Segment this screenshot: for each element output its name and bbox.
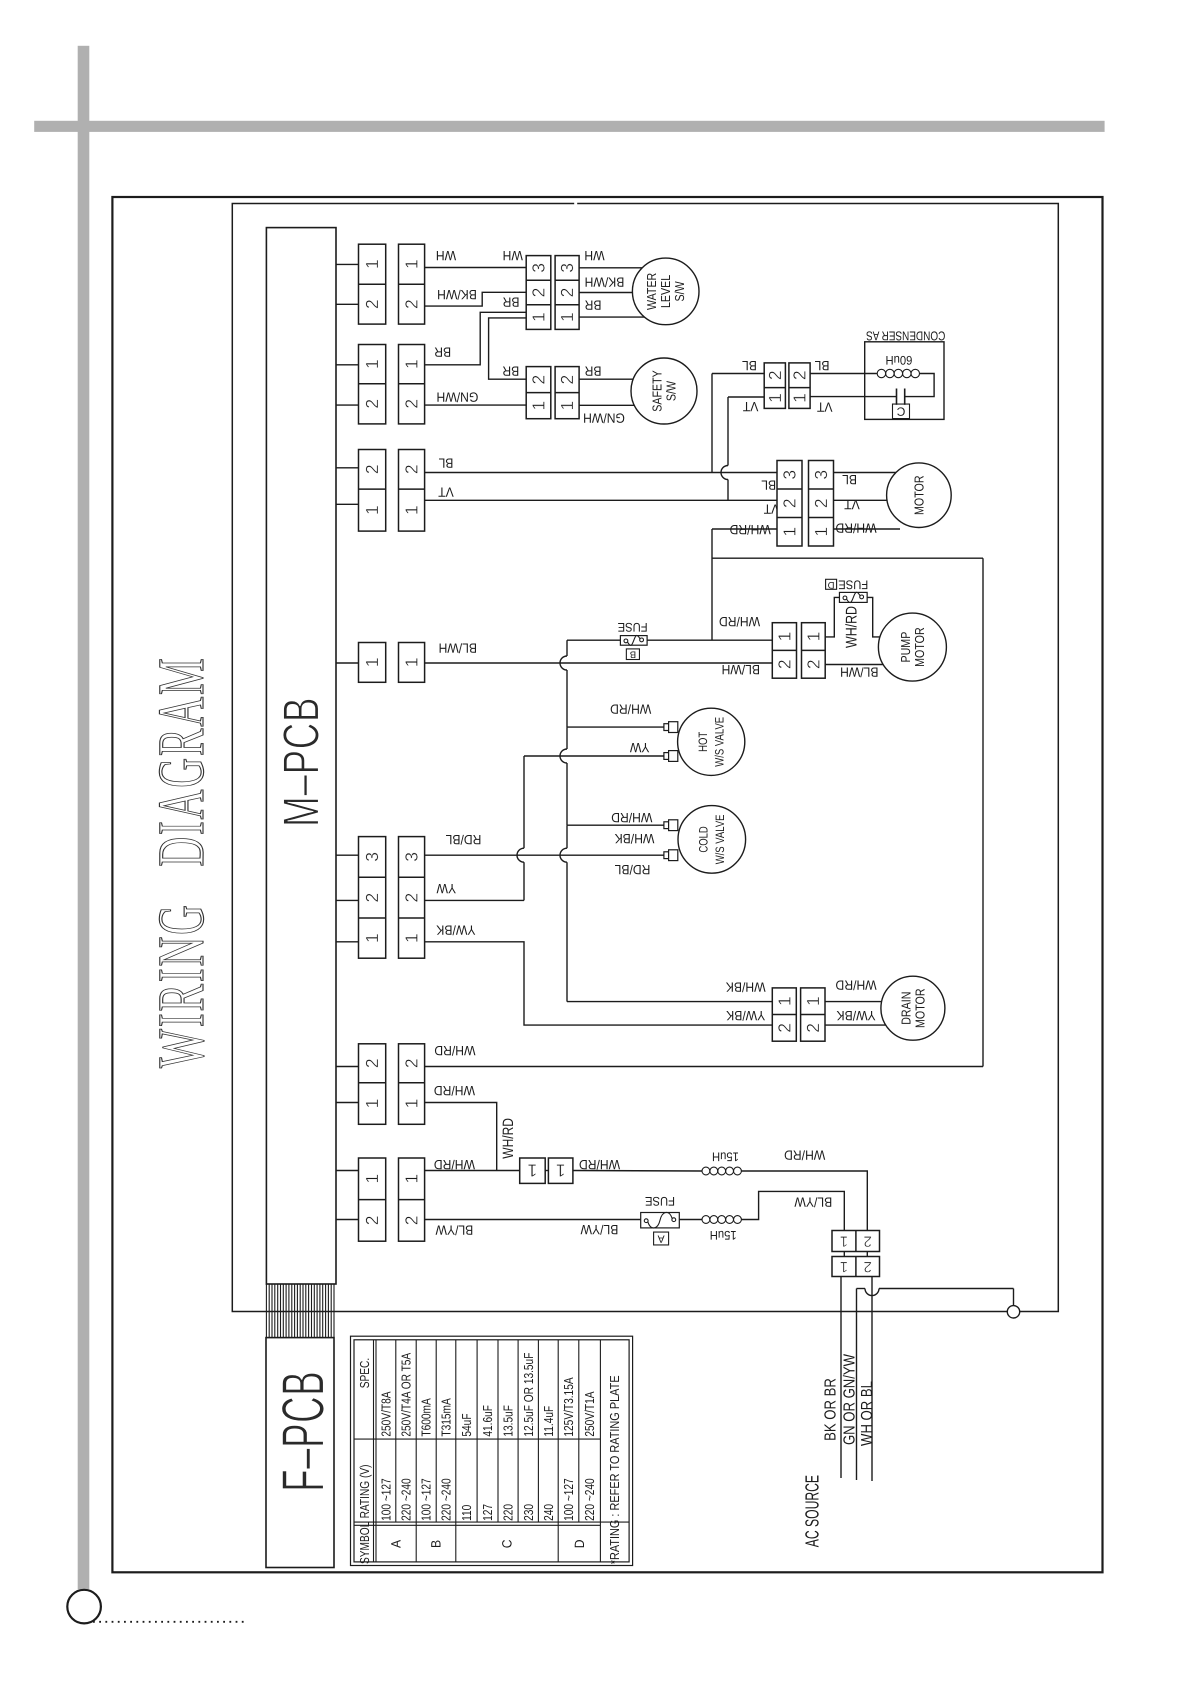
svg-text:DRAIN: DRAIN bbox=[898, 992, 913, 1025]
boxed label B bbox=[626, 649, 639, 660]
svg-text:YW/BK: YW/BK bbox=[436, 923, 475, 938]
svg-text:FUSE: FUSE bbox=[838, 577, 868, 591]
svg-text:BL/WH: BL/WH bbox=[840, 664, 878, 679]
condenser assembly box bbox=[865, 342, 944, 420]
wire bbox=[336, 263, 359, 265]
svg-text:YW: YW bbox=[436, 881, 456, 896]
svg-text:WH/BK: WH/BK bbox=[726, 979, 766, 994]
svg-text:1: 1 bbox=[402, 259, 422, 269]
svg-text:CONDENSER AS: CONDENSER AS bbox=[866, 329, 945, 344]
svg-text:3: 3 bbox=[811, 470, 831, 480]
svg-text:HOT: HOT bbox=[696, 731, 710, 751]
wire BL pairC-2 to motor connector pin3 bbox=[425, 472, 777, 474]
svg-text:WH/RD: WH/RD bbox=[844, 606, 861, 648]
svg-text:RATING (V): RATING (V) bbox=[357, 1465, 372, 1519]
svg-text:VT: VT bbox=[817, 399, 833, 414]
connector CN-MT col1 bbox=[777, 461, 802, 547]
svg-text:C: C bbox=[896, 404, 905, 418]
wire WH/RD feed vertical mid (hop over YW) bbox=[560, 727, 567, 825]
svg-text:100 ~127: 100 ~127 bbox=[378, 1478, 393, 1521]
svg-text:2: 2 bbox=[864, 1258, 872, 1275]
svg-text:COLD: COLD bbox=[697, 826, 711, 853]
svg-text:1: 1 bbox=[790, 393, 810, 403]
connector CN-PM col1 bbox=[772, 623, 796, 679]
wire bbox=[336, 1170, 359, 1172]
wire bbox=[336, 1219, 359, 1221]
boxed label A bbox=[654, 1232, 669, 1245]
wire pump pin1 to fuse D bbox=[825, 597, 839, 637]
wire BR branch CN-WL pin1 down to CN-SF pin2 bbox=[489, 318, 527, 379]
wire coil to capacitor bbox=[905, 374, 934, 397]
svg-text:D: D bbox=[572, 1539, 587, 1548]
svg-text:2: 2 bbox=[803, 659, 823, 669]
wire bbox=[336, 941, 359, 943]
svg-text:2: 2 bbox=[362, 893, 382, 903]
boxed label D bbox=[826, 579, 837, 590]
wire WH pairA-1 to CN-WL bbox=[425, 267, 527, 269]
svg-text:15uH: 15uH bbox=[710, 1228, 737, 1242]
wire WH/RD vertical to fuse junction bbox=[711, 529, 713, 640]
svg-text:WH: WH bbox=[584, 248, 604, 263]
svg-text:220 ~240: 220 ~240 bbox=[439, 1478, 454, 1521]
svg-text:2: 2 bbox=[362, 399, 382, 409]
connector CN-B col2 bbox=[399, 345, 425, 424]
svg-text:110: 110 bbox=[459, 1505, 474, 1521]
wire bbox=[336, 503, 359, 505]
svg-text:54uF: 54uF bbox=[459, 1413, 474, 1436]
svg-text:BL: BL bbox=[814, 358, 829, 373]
svg-text:WH/RD: WH/RD bbox=[835, 520, 876, 535]
svg-text:WATER: WATER bbox=[644, 273, 659, 310]
svg-text:T315mA: T315mA bbox=[439, 1398, 454, 1437]
svg-text:2: 2 bbox=[402, 464, 422, 474]
inner border top small break bbox=[574, 202, 577, 205]
water level switch bbox=[632, 258, 699, 325]
svg-text:125V/T3.15A: 125V/T3.15A bbox=[561, 1377, 576, 1436]
svg-text:1: 1 bbox=[402, 505, 422, 515]
F-PCB board rectangle bbox=[266, 1338, 334, 1568]
boxed label C bbox=[893, 404, 910, 419]
connector CN-D col2 bbox=[399, 643, 425, 683]
connector CN-E col2 bbox=[399, 837, 425, 959]
wire VT pairC-1 to motor connector pin2 bbox=[425, 499, 777, 501]
wire BL/WH to pump motor bbox=[825, 664, 883, 666]
connector CN-C col2 bbox=[399, 450, 425, 532]
svg-text:1: 1 bbox=[780, 527, 800, 537]
wire fuse A to coil 2 bbox=[679, 1219, 702, 1221]
svg-text:F–PCB: F–PCB bbox=[270, 1371, 337, 1492]
wire GN/WH to safety switch bbox=[579, 404, 634, 406]
drain motor bbox=[881, 976, 945, 1040]
svg-text:250V/T4A OR T5A: 250V/T4A OR T5A bbox=[399, 1353, 414, 1437]
svg-text:2: 2 bbox=[803, 1023, 823, 1033]
connector CN-WL col2 bbox=[555, 256, 579, 330]
wire BL branch up to condenser connector pin2 bbox=[711, 374, 713, 473]
svg-text:WH/RD: WH/RD bbox=[719, 614, 760, 629]
svg-text:2: 2 bbox=[765, 370, 785, 380]
svg-text:2: 2 bbox=[362, 1058, 382, 1068]
svg-text:1: 1 bbox=[803, 996, 823, 1006]
connector CN-F col1 bbox=[359, 1044, 386, 1125]
svg-text:AC SOURCE: AC SOURCE bbox=[803, 1475, 824, 1547]
svg-text:1: 1 bbox=[402, 1099, 422, 1109]
wire bbox=[843, 1252, 845, 1257]
svg-text:2: 2 bbox=[774, 659, 794, 669]
svg-text:BL: BL bbox=[742, 358, 757, 373]
svg-text:1: 1 bbox=[402, 658, 422, 668]
wire WH/RD feed vertical upper (hop over BL/WH) bbox=[560, 640, 567, 727]
svg-text:WH/RD: WH/RD bbox=[434, 1043, 475, 1058]
wire BK OR BR to AC source bbox=[840, 1277, 842, 1479]
connector CN-H box2 bbox=[548, 1158, 573, 1183]
wire WH OR BL to AC source bbox=[871, 1277, 873, 1482]
svg-text:A: A bbox=[658, 1233, 665, 1245]
wire BK/WH pairA-2 jog bbox=[425, 292, 527, 306]
svg-text:1: 1 bbox=[362, 505, 382, 515]
svg-text:M–PCB: M–PCB bbox=[273, 697, 330, 827]
svg-text:W/S VALVE: W/S VALVE bbox=[712, 717, 726, 767]
svg-text:1: 1 bbox=[362, 658, 382, 668]
svg-text:YW: YW bbox=[630, 740, 650, 755]
svg-text:3: 3 bbox=[362, 852, 382, 862]
wire GN/WH pairB-2 to CN-SF pin1 bbox=[425, 404, 527, 406]
svg-text:2: 2 bbox=[557, 375, 577, 385]
svg-text:1: 1 bbox=[362, 1099, 382, 1109]
svg-text:YW/BK: YW/BK bbox=[837, 1008, 876, 1023]
svg-text:W/S VALVE: W/S VALVE bbox=[713, 814, 727, 864]
svg-text:PUMP: PUMP bbox=[898, 632, 913, 663]
svg-text:SAFETY: SAFETY bbox=[650, 370, 665, 412]
svg-text:BL/YW: BL/YW bbox=[580, 1222, 618, 1237]
svg-text:WIRING DIAGRAM: WIRING DIAGRAM bbox=[145, 656, 218, 1068]
filter coil 15uH line 2 bbox=[702, 1216, 741, 1224]
svg-text:1: 1 bbox=[362, 1174, 382, 1184]
wire earth branch with hop bbox=[857, 1289, 1014, 1306]
registration mark horizontal gray bar bbox=[34, 121, 1104, 132]
wire feed vertical lower (hop over RD/BL) bbox=[560, 825, 567, 1001]
svg-text:100 ~127: 100 ~127 bbox=[419, 1478, 434, 1521]
svg-text:VT: VT bbox=[743, 399, 759, 414]
connector CN-DM col2 bbox=[801, 988, 825, 1041]
wire bbox=[336, 899, 359, 901]
wire bbox=[866, 1252, 868, 1257]
svg-text:B: B bbox=[630, 649, 636, 660]
svg-text:3: 3 bbox=[780, 470, 800, 480]
connector CN-G col1 bbox=[359, 1158, 386, 1241]
svg-text:15uH: 15uH bbox=[712, 1150, 739, 1164]
svg-text:11.4uF: 11.4uF bbox=[541, 1406, 556, 1437]
wire YW/BK to drain motor bbox=[825, 1024, 886, 1026]
svg-text:1: 1 bbox=[402, 1174, 422, 1184]
cold water valve bbox=[678, 806, 746, 874]
svg-text:GN OR GN/YW: GN OR GN/YW bbox=[841, 1353, 858, 1445]
wire YW/BK from CN-E pin1 bbox=[425, 942, 773, 1025]
capacitor C plates bbox=[896, 389, 898, 405]
svg-text:1: 1 bbox=[529, 401, 549, 411]
svg-text:*RATING : REFER TO RATING PLAT: *RATING : REFER TO RATING PLATE bbox=[607, 1375, 622, 1564]
rating table bbox=[351, 1336, 633, 1565]
fuse B bbox=[620, 635, 647, 645]
svg-text:250V/T1A: 250V/T1A bbox=[582, 1391, 597, 1436]
svg-text:BL: BL bbox=[842, 472, 857, 487]
wire GN OR GN/YW to AC source bbox=[856, 1289, 858, 1481]
wire BL/WH pairD-1 to pump connector pin2 bbox=[425, 662, 773, 664]
svg-text:220: 220 bbox=[501, 1504, 516, 1521]
svg-text:FUSE: FUSE bbox=[618, 620, 648, 634]
svg-text:BK OR BR: BK OR BR bbox=[823, 1378, 840, 1441]
svg-text:S/W: S/W bbox=[664, 380, 679, 401]
svg-text:2: 2 bbox=[402, 299, 422, 309]
wire bbox=[336, 404, 359, 406]
wire WH/RD pairF-1 jog down bbox=[425, 1103, 497, 1171]
wire YW from CN-E pin2 bbox=[425, 899, 524, 901]
wire VT branch up to condenser connector pin1 (hop over BL) bbox=[721, 397, 728, 500]
svg-text:250V/T8A: 250V/T8A bbox=[378, 1391, 393, 1436]
svg-text:GN/WH: GN/WH bbox=[436, 389, 478, 404]
svg-text:2: 2 bbox=[774, 1023, 794, 1033]
svg-text:100 ~127: 100 ~127 bbox=[561, 1478, 576, 1521]
svg-text:220 ~240: 220 ~240 bbox=[582, 1478, 597, 1521]
wire WH/RD coil1 to AC connector bbox=[741, 1171, 867, 1231]
wire bbox=[336, 1066, 359, 1068]
svg-text:2: 2 bbox=[362, 299, 382, 309]
wire BL to condenser bbox=[810, 373, 877, 375]
svg-text:YW/BK: YW/BK bbox=[726, 1008, 765, 1023]
pump motor bbox=[878, 613, 946, 681]
outer border bbox=[112, 197, 1102, 1572]
connector CN-WL col1 bbox=[526, 256, 551, 330]
svg-text:A: A bbox=[389, 1540, 404, 1548]
svg-text:2: 2 bbox=[402, 1058, 422, 1068]
svg-text:1: 1 bbox=[774, 632, 794, 642]
svg-text:B: B bbox=[429, 1540, 444, 1548]
svg-text:230: 230 bbox=[521, 1504, 536, 1521]
wire bbox=[728, 396, 764, 398]
wire bbox=[336, 364, 359, 366]
wire WH to water level switch bbox=[579, 267, 642, 269]
svg-text:1: 1 bbox=[774, 996, 794, 1006]
svg-text:3: 3 bbox=[402, 852, 422, 862]
svg-text:1: 1 bbox=[557, 401, 577, 411]
svg-text:2: 2 bbox=[362, 464, 382, 474]
svg-text:D: D bbox=[828, 579, 835, 590]
wire WH/RD right-side vertical bbox=[982, 558, 984, 1066]
svg-text:RD/BL: RD/BL bbox=[445, 832, 481, 847]
svg-text:BR: BR bbox=[584, 297, 601, 312]
corner circle marker bbox=[67, 1590, 101, 1624]
wire BL/YW pairG-2 to fuse A bbox=[425, 1219, 641, 1221]
connector CN-A col2 bbox=[399, 244, 425, 324]
AC connector box2 bbox=[832, 1257, 880, 1277]
svg-text:BR: BR bbox=[584, 364, 601, 379]
svg-text:BK/WH: BK/WH bbox=[585, 274, 625, 289]
wire bbox=[545, 1170, 548, 1172]
connector CN-MT col2 bbox=[809, 461, 834, 547]
svg-text:WH: WH bbox=[436, 248, 456, 263]
svg-text:2: 2 bbox=[529, 375, 549, 385]
wire WH/RD to line filter coil 1 bbox=[573, 1170, 702, 1173]
svg-text:WH/RD: WH/RD bbox=[610, 702, 651, 717]
wire WH/RD to drain motor bbox=[825, 1001, 882, 1003]
wire BR pairB-1 jog up to CN-WL pin1 bbox=[425, 312, 527, 365]
wire bbox=[712, 373, 764, 375]
svg-text:S/W: S/W bbox=[672, 281, 687, 302]
svg-text:1: 1 bbox=[765, 393, 785, 403]
svg-text:1: 1 bbox=[840, 1233, 848, 1250]
svg-text:LEVEL: LEVEL bbox=[658, 275, 673, 308]
svg-text:WH/RD: WH/RD bbox=[434, 1083, 475, 1098]
svg-text:1: 1 bbox=[529, 312, 549, 322]
svg-text:2: 2 bbox=[529, 288, 549, 298]
svg-text:2: 2 bbox=[402, 1216, 422, 1226]
svg-text:WH/BK: WH/BK bbox=[615, 831, 655, 846]
svg-text:BR: BR bbox=[502, 294, 519, 309]
registration mark vertical gray bar bbox=[78, 46, 90, 1590]
dotted leader line bbox=[93, 1621, 246, 1623]
wire fuse B input from valves feed bbox=[567, 639, 620, 641]
wire fuse D to pump motor bbox=[867, 597, 881, 637]
svg-text:1: 1 bbox=[402, 359, 422, 369]
svg-text:2: 2 bbox=[811, 498, 831, 508]
svg-text:2: 2 bbox=[557, 288, 577, 298]
svg-text:WH OR BL: WH OR BL bbox=[859, 1381, 876, 1446]
wire YW to hot valve bbox=[524, 755, 664, 757]
svg-text:3: 3 bbox=[529, 263, 549, 273]
connector CN-SF col2 bbox=[555, 367, 579, 419]
svg-text:BR: BR bbox=[434, 344, 451, 359]
wire WH/RD to hot valve bbox=[567, 726, 664, 728]
svg-text:WH: WH bbox=[503, 248, 523, 263]
wire bbox=[336, 662, 359, 664]
svg-text:BR: BR bbox=[502, 364, 519, 379]
svg-text:MOTOR: MOTOR bbox=[911, 475, 926, 514]
svg-text:MOTOR: MOTOR bbox=[912, 627, 927, 666]
wire BL/YW coil2 to AC connector bbox=[741, 1191, 844, 1230]
svg-text:WH/RD: WH/RD bbox=[784, 1148, 825, 1163]
connector CN-D col1 bbox=[359, 643, 386, 683]
wire BR to safety switch bbox=[579, 378, 633, 380]
connector CN-PM col2 bbox=[802, 623, 826, 679]
svg-text:2: 2 bbox=[790, 370, 810, 380]
svg-text:220 ~240: 220 ~240 bbox=[399, 1478, 414, 1521]
svg-text:3: 3 bbox=[557, 263, 577, 273]
M-PCB board rectangle bbox=[266, 228, 336, 1284]
svg-text:BL: BL bbox=[761, 478, 776, 493]
wire WH/RD fuse B to pump connector pin1 bbox=[647, 639, 772, 641]
svg-text:WH/RD: WH/RD bbox=[500, 1118, 517, 1159]
svg-text:WH/RD: WH/RD bbox=[579, 1157, 620, 1172]
svg-text:BL/WH: BL/WH bbox=[722, 662, 760, 677]
svg-text:BL: BL bbox=[438, 456, 453, 471]
svg-text:T600mA: T600mA bbox=[419, 1398, 434, 1437]
ribbon cable hatch between M-PCB and F-PCB bbox=[266, 1284, 334, 1338]
wire WH/RD to motor bbox=[834, 528, 901, 530]
svg-text:1: 1 bbox=[840, 1258, 848, 1275]
wire YW vertical from CN-E pin2 (hop over RD/BL) bbox=[517, 756, 524, 900]
svg-text:13.5uF: 13.5uF bbox=[501, 1405, 516, 1437]
connector CN-C col1 bbox=[359, 450, 386, 532]
connector CN-CD col2 bbox=[789, 363, 810, 409]
wire WH/RD pairG-1 to CN-H bbox=[425, 1170, 520, 1172]
condenser coil 60uH bbox=[877, 369, 919, 377]
connector CN-SF col1 bbox=[526, 367, 551, 419]
connector CN-E col1 bbox=[359, 837, 386, 959]
wire WH/RD branch right bbox=[712, 557, 983, 559]
filter coil 15uH line 1 bbox=[702, 1167, 741, 1175]
svg-text:1: 1 bbox=[402, 933, 422, 943]
svg-text:GN/WH: GN/WH bbox=[583, 410, 625, 425]
svg-text:1: 1 bbox=[362, 259, 382, 269]
wire VT to condenser capacitor bbox=[810, 396, 896, 398]
earth terminal circle on enclosure bbox=[1007, 1306, 1019, 1318]
svg-text:RD/BL: RD/BL bbox=[614, 862, 650, 877]
safety switch bbox=[631, 358, 697, 424]
svg-text:2: 2 bbox=[780, 498, 800, 508]
svg-text:240: 240 bbox=[541, 1504, 556, 1521]
svg-text:FUSE: FUSE bbox=[645, 1194, 675, 1208]
cold valve terminal 1 bbox=[664, 820, 678, 831]
wire BK/WH to water level switch bbox=[579, 292, 632, 294]
wire WH/RD pairF-2 long feed bbox=[425, 1066, 983, 1068]
svg-text:SPEC.: SPEC. bbox=[357, 1358, 372, 1388]
inner border bbox=[232, 204, 1058, 1312]
svg-text:60uH: 60uH bbox=[885, 353, 912, 367]
wire WH/RD to cold valve bbox=[567, 824, 664, 826]
svg-text:WH/RD: WH/RD bbox=[611, 810, 652, 825]
fuse D bbox=[839, 592, 867, 602]
wire BR to water level switch bbox=[579, 316, 644, 318]
svg-text:1: 1 bbox=[528, 1161, 538, 1181]
svg-text:MOTOR: MOTOR bbox=[912, 988, 927, 1027]
wire bbox=[336, 303, 359, 305]
connector CN-H box1 bbox=[520, 1158, 546, 1183]
svg-text:12.5uF OR 13.5uF: 12.5uF OR 13.5uF bbox=[521, 1353, 536, 1437]
wire RD/BL from CN-E pin3 to cold valve bbox=[425, 854, 664, 856]
svg-text:2: 2 bbox=[362, 1216, 382, 1226]
fuse A bbox=[641, 1212, 680, 1228]
wire bbox=[336, 1102, 359, 1104]
wire WH/BK to drain connector pin1 bbox=[567, 1001, 772, 1003]
svg-text:1: 1 bbox=[557, 312, 577, 322]
svg-text:127: 127 bbox=[480, 1504, 495, 1521]
svg-text:VT: VT bbox=[438, 485, 454, 500]
connector CN-CD col1 bbox=[764, 363, 785, 409]
svg-text:WH/RD: WH/RD bbox=[434, 1157, 475, 1172]
hot valve terminal 2 bbox=[664, 751, 678, 762]
svg-text:C: C bbox=[500, 1539, 515, 1548]
wire WH/RD motor pin1 left bbox=[712, 528, 777, 530]
connector CN-F col2 bbox=[399, 1044, 425, 1125]
svg-text:1: 1 bbox=[556, 1161, 566, 1181]
svg-text:BK/WH: BK/WH bbox=[437, 287, 477, 302]
svg-text:WH/RD: WH/RD bbox=[729, 522, 770, 537]
svg-text:1: 1 bbox=[362, 359, 382, 369]
svg-text:2: 2 bbox=[402, 399, 422, 409]
svg-text:BL/WH: BL/WH bbox=[439, 641, 477, 656]
svg-text:WH/RD: WH/RD bbox=[835, 978, 876, 993]
cold valve terminal 2 bbox=[664, 850, 678, 861]
wire bbox=[336, 467, 359, 469]
svg-text:2: 2 bbox=[402, 893, 422, 903]
svg-text:SYMBOL: SYMBOL bbox=[357, 1522, 372, 1564]
motor bbox=[887, 463, 952, 528]
wire BL to motor bbox=[834, 472, 896, 474]
connector CN-A col1 bbox=[359, 244, 386, 324]
hot valve terminal 1 bbox=[664, 722, 678, 733]
svg-text:1: 1 bbox=[811, 527, 831, 537]
hot water valve bbox=[678, 708, 745, 775]
svg-text:1: 1 bbox=[362, 933, 382, 943]
